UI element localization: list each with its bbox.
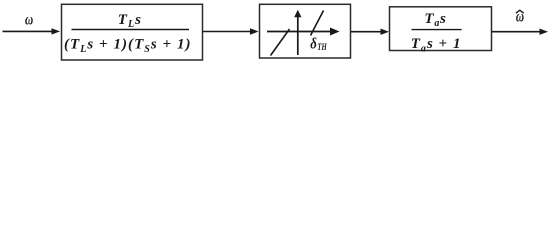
U2 dead-zone left diagonal [271, 29, 290, 56]
U1 denominator (T_L s + 1)(T_S s + 1) [64, 37, 191, 55]
U3 numerator T_a s [424, 11, 446, 29]
wire output arrow [492, 29, 548, 35]
svg-text:TH: TH [317, 43, 327, 53]
node omega-hat output label [516, 9, 524, 26]
svg-text:ω: ω [25, 11, 33, 28]
wire U2 to U3 [351, 29, 389, 35]
U2 threshold label delta_TH [310, 36, 327, 54]
U3 fraction bar [412, 29, 462, 31]
wire U1 to U2 [203, 28, 259, 34]
block U3 transducer filter [390, 7, 492, 51]
svg-text:δ: δ [310, 36, 317, 53]
U1 numerator T_L s [118, 12, 141, 30]
wire input arrow [3, 28, 61, 34]
U3 denominator T_a s + 1 [411, 36, 461, 54]
svg-text:ω: ω [516, 9, 524, 26]
U2 vertical axis with up arrow [294, 10, 301, 55]
node omega input label [25, 11, 33, 28]
U2 horizontal axis with right arrow [267, 28, 340, 36]
block U1 washout filter [62, 4, 203, 60]
block U2 dead-zone [260, 4, 351, 58]
U2 dead-zone right diagonal [311, 11, 324, 36]
svg-text:Tas + 1: Tas + 1 [411, 36, 461, 54]
U1 fraction bar [72, 29, 190, 31]
